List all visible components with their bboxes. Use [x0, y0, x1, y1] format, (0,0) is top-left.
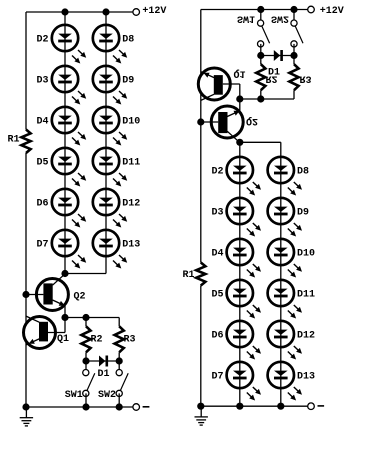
label - (right) — [318, 405, 325, 407]
junction R2 / node wire (right) — [257, 95, 264, 102]
svg-text:D11: D11 — [122, 158, 140, 169]
junction Q2 base / left rail — [22, 291, 29, 298]
transistor Q2 (left) — [26, 274, 68, 317]
svg-text:+12V: +12V — [142, 6, 166, 17]
junction SW1 / D1 anode (right) — [257, 52, 264, 59]
svg-text:Q1: Q1 — [234, 68, 246, 79]
resistor R2 (left) — [85, 318, 87, 327]
terminal +12V (right) — [308, 6, 315, 13]
junction ground / bottom wire (right) — [197, 403, 204, 410]
junction Q2 emitter / Q1 base node (right) — [236, 95, 243, 102]
LED D7 (right column 1) — [227, 362, 261, 401]
svg-text:D8: D8 — [297, 167, 309, 178]
ground (left) — [20, 407, 33, 426]
svg-text:R3: R3 — [124, 334, 136, 345]
svg-text:D3: D3 — [211, 208, 223, 219]
LED D10 (right column 2) — [268, 239, 302, 278]
diode D1 (right) — [274, 50, 283, 61]
LED D9 (left column 2) — [93, 66, 127, 105]
svg-text:R1: R1 — [8, 135, 20, 146]
wire emitter node to R2/R3 tops — [65, 317, 119, 319]
transistor Q2 (right, drawn flipped) — [201, 99, 243, 142]
LED D11 (right column 2) — [268, 280, 302, 319]
label Q1 (right, mirrored) — [234, 68, 246, 79]
label - (left) — [143, 406, 150, 408]
svg-text:D4: D4 — [211, 249, 223, 260]
label Q2 (right, mirrored) — [246, 115, 258, 126]
wire left rail upper segment (to R1) — [25, 12, 27, 130]
svg-text:R2: R2 — [266, 73, 278, 84]
junction Q2 emitter / Q1 base node — [61, 314, 68, 321]
svg-text:D4: D4 — [36, 117, 48, 128]
svg-text:D8: D8 — [122, 35, 134, 46]
svg-text:R1: R1 — [183, 270, 195, 281]
resistor R1 (right) — [196, 263, 205, 286]
LED D8 (left column 2) — [93, 25, 127, 64]
LED D12 (left column 2) — [93, 189, 127, 228]
svg-text:D9: D9 — [122, 76, 134, 87]
wire joining columns to Q2 collector node — [65, 273, 106, 275]
svg-text:Q2: Q2 — [246, 115, 258, 126]
junction column2 / +12V rail — [102, 8, 109, 15]
diode D1 (left) — [99, 356, 108, 367]
svg-text:D1: D1 — [98, 369, 110, 380]
wire node down to Q1 base — [64, 318, 66, 333]
terminal - (right) — [308, 403, 315, 410]
LED D11 (left column 2) — [93, 148, 127, 187]
LED D2 (left column 1) — [52, 25, 86, 64]
svg-text:SW2: SW2 — [271, 12, 289, 23]
wire node up to Q1 base (right) — [239, 84, 241, 99]
wire right rail upper segment (to R1) — [200, 10, 202, 263]
svg-text:D9: D9 — [297, 208, 309, 219]
junction LED cathodes node — [61, 270, 68, 277]
junction R2 bottom / D1 anode — [82, 357, 89, 364]
svg-text:Q2: Q2 — [74, 291, 86, 302]
svg-text:SW1: SW1 — [237, 12, 255, 23]
wire LED column 2 (left) — [105, 12, 107, 274]
switch SW1 (right, drawn flipped) — [258, 10, 270, 56]
svg-text:Q1: Q1 — [57, 334, 69, 345]
resistor R3 (left) — [118, 318, 120, 327]
wire joining Q2 collector to columns (right) — [240, 141, 281, 143]
junction SW1 / bottom wire — [82, 403, 89, 410]
ground (right) — [195, 406, 208, 425]
switch SW2 (right, drawn flipped) — [291, 10, 303, 56]
label SW1 (right, mirrored) — [237, 12, 255, 23]
LED D3 (left column 1) — [52, 66, 86, 105]
svg-text:D13: D13 — [122, 240, 140, 251]
terminal - (left) — [133, 404, 140, 411]
LED D6 (left column 1) — [52, 189, 86, 228]
svg-text:R2: R2 — [91, 334, 103, 345]
transistor Q1 (right, drawn flipped) — [198, 68, 240, 100]
label SW2 (right, mirrored) — [271, 12, 289, 23]
svg-text:D3: D3 — [36, 76, 48, 87]
LED D8 (right column 2) — [268, 157, 302, 196]
junction R2 top — [82, 314, 89, 321]
LED D2 (right column 1) — [227, 157, 261, 196]
wire LED column 1 (right) — [239, 142, 241, 406]
svg-text:D7: D7 — [36, 240, 48, 251]
wire right rail lower segment (R1 to ground) — [200, 286, 202, 407]
resistor R2 (right) — [260, 56, 262, 65]
LED D3 (right column 1) — [227, 198, 261, 237]
switch SW2 (left) — [116, 361, 128, 407]
svg-text:D5: D5 — [211, 290, 223, 301]
svg-text:D11: D11 — [297, 290, 315, 301]
svg-text:SW1: SW1 — [65, 390, 83, 401]
svg-text:D6: D6 — [211, 331, 223, 342]
LED D7 (left column 1) — [52, 230, 86, 269]
junction Q2 base / right rail — [197, 118, 204, 125]
junction SW2 / bottom wire — [116, 403, 123, 410]
switch SW1 (left) — [83, 361, 95, 407]
resistor R3 (right) — [293, 56, 295, 65]
wire left rail lower segment (R1 to ground) — [25, 153, 27, 407]
LED D10 (left column 2) — [93, 107, 127, 146]
junction SW2 / D1 cathode (right) — [290, 52, 297, 59]
junction column1 / bottom wire (right) — [236, 403, 243, 410]
wire emitter node to R2/R3 bottoms (right) — [240, 98, 294, 100]
wire +12V rail (right circuit top) — [201, 9, 308, 11]
label R3 (right, mirrored) — [300, 73, 312, 84]
LED D6 (right column 1) — [227, 321, 261, 360]
wire D1 (right) — [261, 55, 294, 57]
resistor R1 (left) — [21, 130, 30, 154]
junction column1 / +12V rail — [61, 8, 68, 15]
svg-text:D6: D6 — [36, 199, 48, 210]
label R2 (right, mirrored) — [266, 73, 278, 84]
junction ground / bottom wire — [22, 403, 29, 410]
svg-text:D5: D5 — [36, 158, 48, 169]
LED D13 (right column 2) — [268, 362, 302, 401]
junction SW2 / +12V rail (right) — [290, 6, 297, 13]
LED D13 (left column 2) — [93, 230, 127, 269]
wire D1 (left) — [86, 360, 119, 362]
svg-text:D2: D2 — [211, 167, 223, 178]
wire bottom return (right circuit) — [201, 405, 308, 407]
svg-text:D2: D2 — [36, 35, 48, 46]
svg-text:D13: D13 — [297, 372, 315, 383]
wire LED column 2 (right) — [280, 142, 282, 406]
svg-text:+12V: +12V — [320, 6, 344, 17]
junction column2 / bottom wire (right) — [277, 403, 284, 410]
svg-text:SW2: SW2 — [98, 390, 116, 401]
junction R3 bottom / D1 cathode — [116, 357, 123, 364]
svg-text:D7: D7 — [211, 372, 223, 383]
svg-text:R3: R3 — [300, 73, 312, 84]
transistor Q1 (left) — [24, 316, 66, 348]
LED D4 (right column 1) — [227, 239, 261, 278]
svg-text:D10: D10 — [122, 117, 140, 128]
wire LED column 1 (left) — [64, 12, 66, 274]
junction SW1 / +12V rail (right) — [257, 6, 264, 13]
svg-text:D12: D12 — [297, 331, 315, 342]
svg-text:D10: D10 — [297, 249, 315, 260]
LED D9 (right column 2) — [268, 198, 302, 237]
LED D12 (right column 2) — [268, 321, 302, 360]
terminal +12V (left) — [133, 9, 140, 16]
LED D5 (left column 1) — [52, 148, 86, 187]
LED D5 (right column 1) — [227, 280, 261, 319]
junction Q2 collector / LED anodes node (right) — [236, 139, 243, 146]
svg-text:D12: D12 — [122, 199, 140, 210]
LED D4 (left column 1) — [52, 107, 86, 146]
wire +12V rail (left circuit top) — [26, 11, 133, 13]
wire bottom return (left circuit) — [26, 406, 133, 408]
